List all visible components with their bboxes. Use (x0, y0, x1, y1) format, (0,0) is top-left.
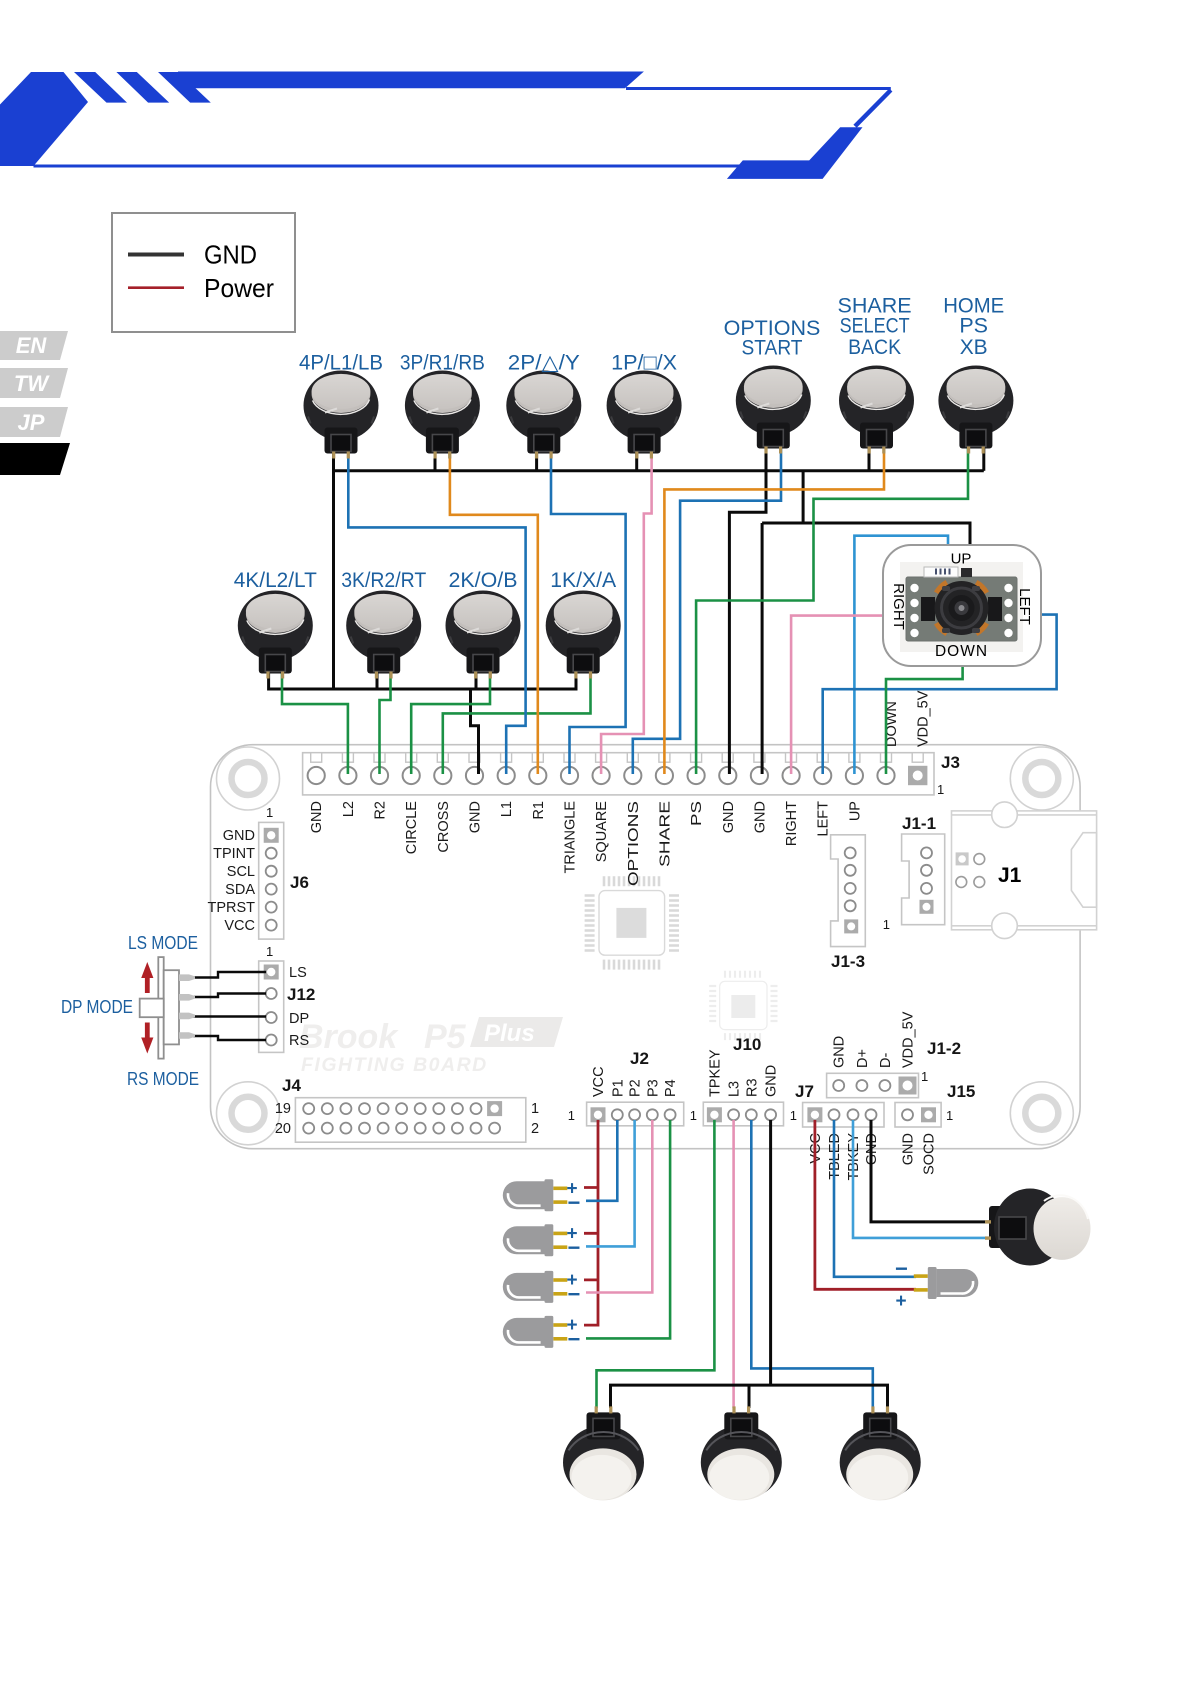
wire TRIANGLE blue 2P (551, 448, 626, 774)
svg-text:−: − (568, 1282, 581, 1307)
joystick corner guides (938, 584, 986, 633)
wire LEFT blue joystick (823, 615, 1057, 774)
wire PS green HOME (696, 446, 968, 774)
svg-text:19: 19 (275, 1101, 291, 1117)
svg-text:J15: J15 (947, 1082, 975, 1101)
svg-text:CROSS: CROSS (436, 801, 452, 853)
board outline (211, 745, 1081, 1149)
svg-text:−: − (568, 1190, 581, 1215)
svg-text:TPRST: TPRST (207, 900, 255, 916)
button 4K/L2/LT (234, 568, 317, 679)
svg-text:LEFT: LEFT (1016, 588, 1033, 625)
wire VCC red J7 to LED (815, 1120, 916, 1289)
svg-text:DOWN: DOWN (935, 643, 988, 660)
wire R3 blue J10 (751, 1120, 873, 1408)
svg-text:R3: R3 (744, 1078, 760, 1097)
wire GND drop 2P (535, 448, 538, 471)
wire L3 pink J10 (732, 1120, 735, 1408)
banner swoosh (727, 127, 863, 179)
wire GND drop 1P (635, 448, 638, 471)
svg-text:J4: J4 (282, 1076, 301, 1095)
svg-text:START: START (742, 336, 803, 360)
mounting hole bottom-left (217, 1082, 280, 1145)
banner stripe 1 (74, 72, 127, 103)
svg-text:J12: J12 (287, 985, 315, 1004)
wire GND joystick to J3 pin15 (762, 523, 970, 774)
button 3P/R1/RB (400, 351, 485, 459)
wire P4 green to LED4 (586, 1120, 670, 1338)
slide switch body (140, 957, 179, 1059)
svg-text:1: 1 (266, 944, 273, 959)
svg-text:1: 1 (883, 917, 890, 932)
button 4P/L1/LB (299, 351, 383, 459)
svg-text:GND: GND (309, 801, 325, 833)
svg-text:VDD_5V: VDD_5V (901, 1011, 917, 1068)
svg-text:UP: UP (951, 551, 972, 568)
bottom button 2 (701, 1406, 782, 1500)
svg-text:1: 1 (266, 805, 273, 820)
legend GND line (128, 253, 184, 257)
wire CROSS green 1K (443, 668, 591, 774)
wire SQUARE pink 1P (601, 448, 652, 774)
svg-text:1: 1 (568, 1108, 575, 1123)
svg-text:J1-1: J1-1 (902, 814, 936, 833)
button 1P/square/X (607, 351, 682, 459)
header J1-1 (883, 814, 945, 932)
svg-text:GND: GND (204, 240, 257, 270)
svg-text:TW: TW (14, 371, 50, 396)
LED 1 (503, 1179, 581, 1216)
svg-text:GND: GND (901, 1133, 917, 1165)
wire GND drop 2K (475, 668, 478, 689)
svg-text:SOCD: SOCD (922, 1133, 938, 1175)
wire GND black J7 to side button (871, 1120, 992, 1222)
svg-text:L2: L2 (341, 801, 357, 817)
svg-text:SCL: SCL (227, 864, 255, 880)
svg-text:J1: J1 (998, 864, 1022, 887)
svg-text:3P/R1/RB: 3P/R1/RB (400, 351, 485, 375)
svg-text:J10: J10 (733, 1035, 761, 1054)
wire SHARE orange (664, 446, 884, 774)
svg-text:J3: J3 (941, 753, 960, 772)
svg-text:GND: GND (223, 828, 255, 844)
header J4 (275, 1076, 539, 1142)
svg-text:SQUARE: SQUARE (594, 801, 610, 863)
svg-text:OPTIONS: OPTIONS (626, 801, 642, 886)
svg-text:D+: D+ (855, 1049, 871, 1068)
wire TBKEY lightblue J7 (853, 1120, 992, 1238)
wire J12 LS (180, 972, 266, 978)
wire TPKEY green J10 (597, 1120, 715, 1408)
svg-text:−: − (895, 1256, 908, 1281)
joystick side actuators (921, 597, 935, 621)
header J10 (690, 1035, 784, 1126)
button HOME PS XB (938, 294, 1013, 454)
arrow up (LS) (141, 962, 153, 993)
svg-text:TPKEY: TPKEY (707, 1049, 723, 1097)
svg-text:4K/L2/LT: 4K/L2/LT (234, 568, 317, 592)
button OPTIONS START (724, 316, 821, 454)
svg-text:1P/□/X: 1P/□/X (611, 351, 677, 375)
switch terminals (179, 974, 195, 1038)
joystick photo backdrop (900, 562, 1023, 652)
wire UP blue joystick (854, 536, 948, 774)
svg-text:SDA: SDA (225, 882, 255, 898)
banner thin top line (626, 87, 891, 90)
header J3 (303, 690, 960, 886)
side button 24mm (985, 1189, 1091, 1266)
svg-text:RIGHT: RIGHT (784, 801, 800, 846)
wire GND drop bottom middle button (748, 1385, 751, 1408)
banner blade (0, 72, 88, 166)
banner thin right diagonal (853, 89, 892, 128)
svg-text:1: 1 (921, 1069, 928, 1084)
svg-text:2P/△/Y: 2P/△/Y (508, 351, 580, 375)
svg-text:GND: GND (468, 801, 484, 833)
bottom button 3 (840, 1406, 921, 1500)
svg-text:LEFT: LEFT (816, 801, 832, 837)
main MCU chip U1 (585, 876, 679, 969)
svg-text:Brook: Brook (299, 1018, 399, 1056)
svg-text:DP: DP (289, 1011, 309, 1027)
wire GND punch bus (334, 469, 984, 472)
svg-text:J7: J7 (795, 1082, 814, 1101)
arrow down (RS) (141, 1023, 153, 1054)
svg-text:1K/X/A: 1K/X/A (550, 568, 617, 592)
button SHARE SELECT BACK (838, 294, 914, 454)
banner stripe 2 (116, 72, 169, 103)
joystick mechanism (935, 581, 989, 635)
svg-text:1: 1 (531, 1101, 539, 1117)
header J2 (568, 1049, 684, 1126)
secondary chip U2 (709, 971, 777, 1040)
wire DOWN green joystick (886, 664, 963, 774)
svg-text:R2: R2 (373, 801, 389, 820)
wire GND OPTIONS to J3 pin14 (729, 446, 766, 774)
svg-text:Power: Power (204, 273, 274, 303)
joystick mounting plate (906, 577, 1017, 641)
wire GND drop SHARE (868, 446, 871, 471)
svg-text:2: 2 (531, 1121, 539, 1137)
svg-text:1: 1 (790, 1108, 797, 1123)
bottom button 1 (563, 1406, 644, 1500)
wire J12 DP (180, 1015, 266, 1017)
wire GND kick bus to J3 pin6 (471, 689, 479, 774)
wire OPTIONS blue (633, 446, 781, 774)
svg-text:RS: RS (289, 1033, 309, 1049)
svg-text:J2: J2 (630, 1049, 649, 1068)
LED 3 (503, 1270, 581, 1307)
svg-text:Plus: Plus (484, 1020, 535, 1047)
svg-text:J1-3: J1-3 (831, 952, 865, 971)
svg-text:EN: EN (16, 333, 48, 358)
banner stripe 3 (158, 72, 211, 103)
tab EN (0, 331, 68, 360)
svg-text:VCC: VCC (224, 918, 255, 934)
svg-text:CIRCLE: CIRCLE (404, 801, 420, 855)
wire GND black J10 to bottom bus (769, 1120, 772, 1385)
wire R2 green 3K (380, 668, 391, 774)
svg-text:GND: GND (764, 1065, 780, 1097)
wire CIRCLE green 2K (411, 668, 490, 774)
svg-text:+: + (896, 1291, 907, 1312)
svg-text:BACK: BACK (848, 335, 902, 359)
button 2P/triangle/Y (506, 351, 581, 459)
svg-text:20: 20 (275, 1121, 291, 1137)
mounting hole top-left (217, 747, 280, 810)
svg-text:TRIANGLE: TRIANGLE (563, 801, 579, 874)
header J6 (207, 805, 308, 939)
mounting hole bottom-right (1010, 1082, 1073, 1145)
silkscreen watermark Brook P5 Plus (299, 1017, 563, 1076)
tab JP (0, 407, 68, 437)
svg-text:P5: P5 (424, 1018, 467, 1056)
LED 4 (503, 1315, 581, 1352)
svg-text:D-: D- (878, 1053, 894, 1068)
wire GND drop 3K (376, 668, 379, 689)
wire J12 pin2 (180, 994, 266, 998)
svg-text:JP: JP (18, 410, 45, 435)
svg-text:−: − (568, 1235, 581, 1260)
wire TBLED blue J7 (834, 1120, 916, 1277)
svg-text:P1: P1 (610, 1079, 626, 1097)
svg-text:J1-2: J1-2 (927, 1039, 961, 1058)
wire P3 pink to LED3 (586, 1120, 652, 1293)
svg-text:RIGHT: RIGHT (890, 583, 907, 630)
wire GND drop HOME (982, 446, 985, 471)
svg-text:FIGHTING B0ARD: FIGHTING B0ARD (301, 1054, 488, 1076)
header J7 (790, 1082, 884, 1181)
legend Power line (128, 286, 184, 289)
svg-text:LS: LS (289, 965, 307, 981)
wire VCC red J2 to LEDs (584, 1120, 598, 1325)
USB connector J1 (952, 802, 1097, 939)
svg-text:DP MODE: DP MODE (61, 997, 133, 1017)
svg-text:P4: P4 (663, 1079, 679, 1097)
LED 2 (503, 1224, 581, 1261)
svg-text:J6: J6 (290, 873, 309, 892)
svg-text:−: − (568, 1327, 581, 1352)
svg-text:1: 1 (690, 1108, 697, 1123)
svg-text:TPINT: TPINT (213, 846, 255, 862)
header J12 (259, 944, 316, 1052)
wire J12 RS (180, 1036, 266, 1040)
header J1-3 (831, 835, 866, 971)
svg-text:P2: P2 (628, 1079, 644, 1097)
svg-text:LS MODE: LS MODE (128, 933, 198, 953)
svg-text:GND: GND (832, 1036, 848, 1068)
joystick panel (883, 545, 1041, 666)
svg-text:4P/L1/LB: 4P/L1/LB (299, 351, 383, 375)
svg-text:GND: GND (721, 801, 737, 833)
button 2K/O/B (446, 568, 521, 679)
svg-text:L3: L3 (727, 1081, 743, 1097)
LED touchpad (bottom right) (895, 1256, 978, 1312)
wire P2 lightblue to LED2 (586, 1120, 635, 1246)
tab active (black) (0, 443, 70, 475)
wire GND drop 3P (434, 448, 437, 471)
legend box (112, 213, 295, 332)
svg-text:1: 1 (937, 782, 944, 797)
button 1K/X/A (546, 568, 621, 679)
banner thin bottom line (34, 165, 742, 168)
svg-text:SHARE: SHARE (657, 801, 673, 867)
svg-text:3K/R2/RT: 3K/R2/RT (341, 568, 426, 592)
wire L1 blue 4P (348, 448, 525, 774)
joystick wire connector (924, 567, 958, 577)
wire GND bus junction to joystick row (802, 471, 805, 523)
svg-text:P3: P3 (645, 1079, 661, 1097)
svg-text:1: 1 (946, 1108, 953, 1123)
svg-text:XB: XB (960, 335, 988, 359)
wire R1 orange 3P (450, 448, 538, 774)
svg-text:L1: L1 (499, 801, 515, 817)
mounting hole top-right (1010, 747, 1073, 810)
svg-text:UP: UP (847, 801, 863, 821)
svg-text:GND: GND (752, 801, 768, 833)
header J1-2 (827, 1011, 961, 1097)
wire P1 blue to LED1 (586, 1120, 617, 1201)
wire GND bottom bus (611, 1385, 888, 1408)
svg-text:PS: PS (689, 801, 705, 826)
banner top bar (178, 72, 644, 89)
wire GND kick bus (269, 668, 576, 689)
wire GND trunk from button 4P to kick bus (332, 450, 335, 689)
svg-text:R1: R1 (531, 801, 547, 820)
svg-text:RS MODE: RS MODE (127, 1069, 199, 1089)
wire L2 green 4K (282, 668, 348, 774)
tab TW (0, 368, 68, 398)
button 3K/R2/RT (341, 568, 426, 679)
header J15 (895, 1082, 975, 1175)
wire RIGHT pink joystick (791, 616, 884, 774)
svg-text:2K/O/B: 2K/O/B (449, 568, 518, 592)
svg-text:VDD_5V: VDD_5V (916, 690, 932, 747)
svg-text:VCC: VCC (591, 1066, 607, 1097)
